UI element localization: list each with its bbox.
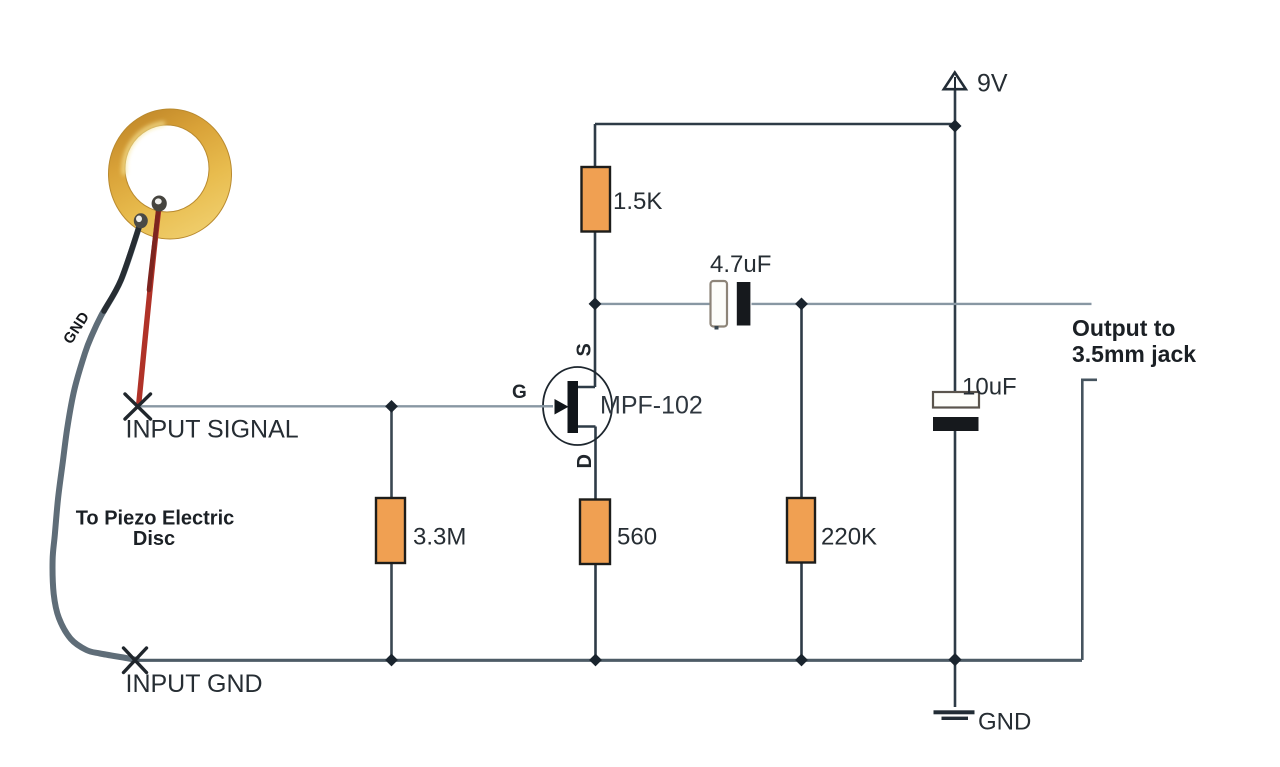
svg-text:G: G [512,382,527,403]
svg-text:10uF: 10uF [962,374,1017,401]
svg-text:GND: GND [978,709,1031,736]
svg-text:To Piezo Electric: To Piezo Electric [76,508,235,530]
svg-text:D: D [574,454,596,468]
svg-text:3.3M: 3.3M [413,524,466,551]
svg-text:Disc: Disc [133,528,175,550]
svg-text:INPUT GND: INPUT GND [126,670,263,698]
svg-text:3.5mm jack: 3.5mm jack [1072,341,1196,367]
svg-text:9V: 9V [977,70,1008,98]
svg-text:S: S [574,343,596,356]
svg-text:MPF-102: MPF-102 [600,392,703,420]
svg-text:560: 560 [617,524,657,551]
svg-text:1.5K: 1.5K [613,188,662,215]
svg-text:Output to: Output to [1072,315,1175,341]
svg-text:220K: 220K [821,524,877,551]
svg-text:4.7uF: 4.7uF [710,251,771,278]
svg-text:INPUT SIGNAL: INPUT SIGNAL [126,416,299,444]
